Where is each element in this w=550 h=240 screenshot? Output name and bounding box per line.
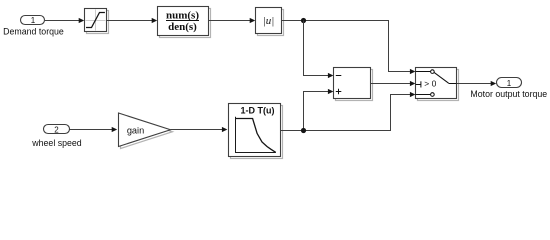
outport 1 [497, 78, 522, 88]
inport 1 [21, 16, 45, 25]
svg-text:1-D T(u): 1-D T(u) [241, 106, 275, 116]
wire sum output to switch input 2 [371, 81, 416, 86]
wire abs to corner [282, 20, 390, 22]
svg-text:> 0: > 0 [424, 79, 436, 89]
wire switch output to outport [457, 81, 497, 86]
saturation block [85, 9, 109, 34]
svg-text:num(s): num(s) [166, 9, 199, 21]
inport 2 [44, 125, 70, 135]
svg-text:den(s): den(s) [168, 21, 197, 33]
svg-text:|u|: |u| [263, 15, 275, 27]
wire transfer fcn to abs [209, 18, 256, 23]
svg-text:gain: gain [127, 125, 144, 135]
wire junction A down to sum minus input [304, 21, 334, 79]
wire inport2 to gain [70, 127, 118, 132]
svg-text:wheel speed: wheel speed [31, 138, 82, 148]
lookup table block [229, 104, 283, 159]
sum block [334, 68, 373, 101]
svg-text:Motor output torque: Motor output torque [470, 89, 547, 99]
junction node B [301, 128, 306, 133]
wire inport1 to saturation [45, 18, 84, 23]
svg-text:1: 1 [507, 79, 512, 88]
wire saturation to transfer fcn [107, 18, 158, 23]
junction node A [301, 18, 306, 23]
wire gain to lookup table [171, 127, 228, 132]
svg-text:1: 1 [31, 16, 36, 25]
svg-text:Demand torque: Demand torque [3, 26, 64, 36]
wire junction B up to sum plus input [304, 89, 334, 131]
transfer function block [158, 7, 211, 38]
abs block [256, 8, 284, 36]
svg-text:2: 2 [54, 125, 59, 134]
gain block [119, 113, 173, 149]
wire corner up to switch input 3 [391, 92, 416, 131]
switch block [416, 68, 459, 101]
wire corner down to switch input 1 [389, 21, 416, 75]
wire lookup output to corner [281, 130, 392, 132]
